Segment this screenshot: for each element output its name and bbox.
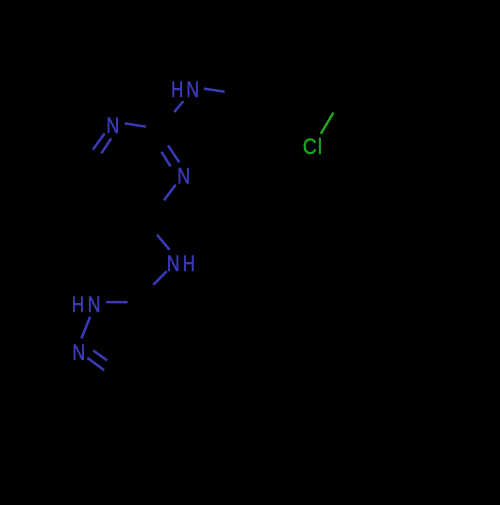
bond C2=N3 inner line (blue half) xyxy=(162,152,171,167)
svg-text:N: N xyxy=(177,165,190,189)
bond N1'-C5' (blue half) xyxy=(106,301,128,304)
bond N1=C6 inner line (blue half) xyxy=(101,139,111,154)
svg-text:H: H xyxy=(171,78,183,103)
svg-text:N: N xyxy=(88,293,101,317)
bond N1'-N2' (full blue) xyxy=(82,317,91,339)
svg-text:N: N xyxy=(106,114,119,138)
svg-text:N: N xyxy=(186,78,199,102)
bond N2'=C3' main line (blue half) xyxy=(87,358,104,370)
bond C-Cl (green half) xyxy=(321,113,334,134)
svg-text:H: H xyxy=(183,252,195,277)
svg-text:N: N xyxy=(72,341,85,365)
bond N1-C2 (blue half) xyxy=(125,123,146,126)
svg-text:l: l xyxy=(318,135,322,159)
bond N1=C6 outer line (blue half) xyxy=(93,133,105,149)
bond C2-NH(top) (blue half) xyxy=(174,101,183,112)
bond C2=N3 main line (blue half) xyxy=(168,145,179,162)
bond NH(mid)-C5' (blue half) xyxy=(153,271,167,285)
svg-text:C: C xyxy=(303,135,317,160)
svg-text:H: H xyxy=(72,293,84,318)
bond C4-NH(mid) (blue half) xyxy=(157,235,170,250)
bond N3-C4 (blue half) xyxy=(164,185,176,201)
bond N2'=C3' offset line (blue half) xyxy=(93,350,107,360)
svg-text:N: N xyxy=(167,252,180,276)
bond NH(top)-CH2 (blue half) xyxy=(204,89,225,92)
